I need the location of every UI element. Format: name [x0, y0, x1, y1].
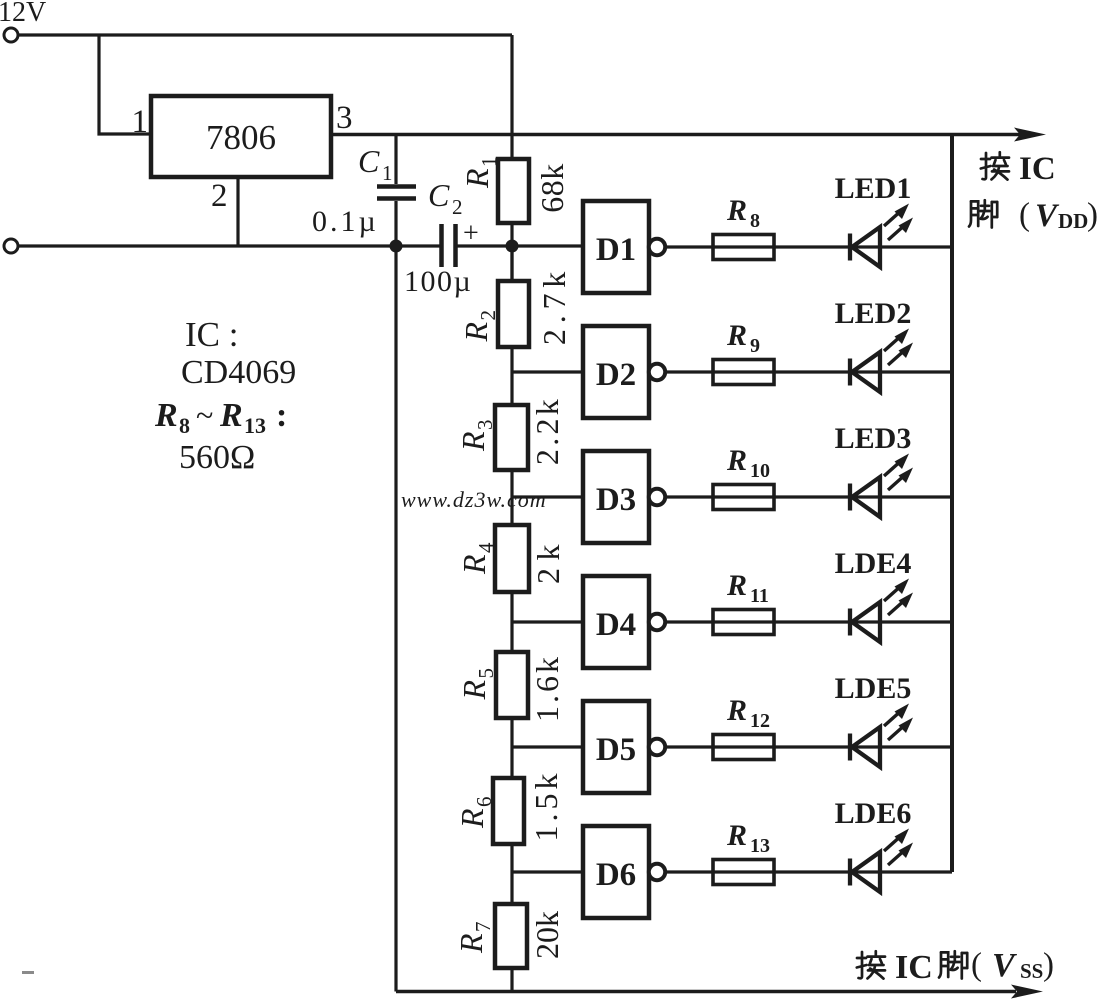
svg-text:13: 13 — [244, 413, 266, 438]
wire R7 to bottom rail — [510, 968, 513, 992]
svg-text:7: 7 — [471, 922, 495, 933]
wire C2 to node B — [457, 244, 583, 247]
resistor R1 — [498, 159, 529, 223]
svg-text:5: 5 — [474, 668, 498, 679]
svg-text:R: R — [726, 444, 747, 477]
resistor R12 — [713, 735, 774, 760]
inverter D2 — [583, 326, 649, 418]
svg-text:): ) — [1087, 197, 1097, 233]
resistor R9 — [713, 360, 774, 385]
capacitor C2 — [442, 224, 456, 267]
svg-text:+: + — [463, 218, 479, 249]
wire bottom VSS rail — [396, 990, 1016, 994]
label jiao (VDD line2) — [969, 200, 997, 227]
svg-text:4: 4 — [474, 542, 498, 553]
arrow VDD — [1014, 128, 1046, 142]
label R6 — [454, 797, 496, 830]
label R7 — [453, 922, 495, 955]
value 68k — [534, 163, 570, 213]
svg-text:560Ω: 560Ω — [179, 439, 255, 476]
wire D6 output row — [665, 870, 952, 873]
capacitor C1 — [377, 187, 416, 199]
svg-text:D1: D1 — [596, 232, 636, 268]
value 1.5k — [528, 770, 564, 842]
svg-text:10: 10 — [750, 460, 770, 482]
label jie IC (VDD line1) — [981, 152, 1009, 179]
svg-text:R: R — [456, 554, 492, 575]
value 2k — [530, 537, 566, 584]
svg-text:100µ: 100µ — [404, 265, 472, 298]
wire chain seg4 — [510, 592, 513, 652]
bubble D4 output — [649, 614, 665, 630]
svg-text:2: 2 — [476, 310, 500, 321]
svg-text:~: ~ — [196, 397, 213, 433]
svg-text:D2: D2 — [596, 357, 636, 393]
svg-text:0.1µ: 0.1µ — [312, 205, 379, 238]
LED LED1 — [850, 204, 913, 268]
label R2 — [458, 310, 500, 343]
svg-text:LED2: LED2 — [835, 297, 912, 330]
svg-text:11: 11 — [750, 585, 769, 607]
svg-text:R: R — [219, 397, 243, 434]
LED LED3 — [850, 454, 913, 518]
wire D5 output row — [665, 745, 952, 748]
svg-text:R: R — [459, 168, 495, 189]
svg-text:R: R — [726, 194, 747, 227]
bubble D3 output — [649, 489, 665, 505]
value 1.6k — [529, 654, 565, 722]
svg-text:R: R — [726, 319, 747, 352]
svg-text:IC: IC — [895, 949, 933, 986]
LED LDE5 — [850, 704, 913, 768]
wire D3 output row — [665, 495, 952, 498]
wire tap to D5 — [512, 745, 583, 748]
resistor R13 — [713, 860, 774, 885]
svg-text:D4: D4 — [596, 607, 636, 643]
wire chain seg2 — [510, 347, 513, 405]
LED LED2 — [850, 329, 913, 393]
svg-text:D6: D6 — [596, 857, 636, 893]
svg-text:3: 3 — [473, 420, 497, 431]
wire tap to D3 — [512, 495, 583, 498]
resistor R11 — [713, 610, 774, 635]
svg-text:2.7k: 2.7k — [536, 266, 572, 345]
resistor R6 — [493, 778, 524, 844]
inverter D1 — [583, 201, 649, 293]
svg-text:LED3: LED3 — [835, 422, 912, 455]
svg-text:3: 3 — [336, 100, 353, 136]
capacitor C1 lead top — [394, 134, 397, 184]
svg-text:1: 1 — [382, 161, 393, 185]
svg-text:LDE6: LDE6 — [835, 797, 912, 830]
capacitor C1 lead bottom — [394, 201, 397, 246]
wire D4 output row — [665, 620, 952, 623]
bubble D6 output — [649, 864, 665, 880]
wire pin3 VDD rail — [331, 133, 1020, 137]
bubble D2 output — [649, 364, 665, 380]
svg-text:7806: 7806 — [206, 118, 276, 157]
svg-text:www.dz3w.com: www.dz3w.com — [401, 487, 547, 512]
svg-text:DD: DD — [1058, 209, 1088, 233]
bubble D1 output — [649, 239, 665, 255]
svg-text:D3: D3 — [596, 482, 636, 518]
svg-text:IC: IC — [1019, 151, 1056, 187]
terminal input + — [4, 28, 18, 42]
svg-text:R: R — [455, 431, 491, 452]
svg-text:68k: 68k — [534, 163, 570, 213]
svg-text:IC :: IC : — [185, 315, 238, 354]
wire tap to D6 — [512, 870, 583, 873]
svg-text:): ) — [1043, 947, 1054, 983]
resistor R2 — [498, 281, 529, 347]
wire branch to pin1 — [99, 35, 151, 134]
svg-text:R: R — [726, 819, 747, 852]
arrow VSS — [1011, 985, 1043, 999]
svg-text:R: R — [454, 808, 490, 829]
svg-text::: : — [276, 397, 287, 434]
svg-text:R: R — [726, 694, 747, 727]
resistor R5 — [496, 652, 528, 718]
svg-text:2: 2 — [452, 195, 463, 219]
wire right bus — [950, 134, 954, 872]
inverter D4 — [583, 576, 649, 668]
svg-text:8: 8 — [750, 210, 760, 232]
svg-text:(: ( — [971, 947, 982, 983]
wire node B to R2 — [510, 246, 513, 281]
resistor R4 — [495, 525, 529, 592]
svg-text:V: V — [1035, 198, 1060, 234]
svg-text:9: 9 — [750, 335, 760, 357]
svg-text:C: C — [428, 177, 450, 213]
wire chain seg1 — [510, 223, 513, 281]
wire D2 output row — [665, 370, 952, 373]
svg-text:12: 12 — [750, 710, 770, 732]
svg-text:6: 6 — [472, 797, 496, 808]
svg-text:1.6k: 1.6k — [529, 654, 565, 722]
label R5 — [456, 668, 498, 701]
wire tap to D4 — [512, 620, 583, 623]
resistor R3 — [495, 405, 528, 470]
svg-text:R: R — [453, 933, 489, 954]
wire tap to D2 — [512, 370, 583, 373]
value 2.7k — [536, 266, 572, 345]
svg-text:2.2k: 2.2k — [529, 396, 565, 465]
svg-text:LED1: LED1 — [835, 172, 912, 205]
svg-text:R: R — [458, 322, 494, 343]
svg-text:(: ( — [1019, 197, 1030, 233]
svg-text:2k: 2k — [530, 537, 566, 584]
svg-text:R: R — [154, 397, 178, 434]
label R4 — [456, 542, 498, 575]
svg-text:LDE5: LDE5 — [835, 672, 912, 705]
resistor R10 — [713, 485, 774, 510]
svg-text:1.5k: 1.5k — [528, 770, 564, 842]
svg-text:C: C — [358, 143, 380, 179]
svg-text:R: R — [726, 569, 747, 602]
svg-text:D5: D5 — [596, 732, 636, 768]
svg-text:V: V — [992, 947, 1017, 984]
resistor R7 — [495, 904, 527, 968]
value 20k — [529, 911, 565, 959]
svg-text:LDE4: LDE4 — [835, 547, 912, 580]
wire chain seg3 — [510, 470, 513, 525]
wire top 12V rail — [18, 33, 512, 36]
wire bottom input rail — [18, 244, 440, 247]
wire chain seg5 — [510, 718, 513, 778]
LED LDE4 — [850, 579, 913, 643]
inverter D5 — [583, 701, 649, 793]
svg-text:CD4069: CD4069 — [181, 354, 296, 391]
stray mark — [22, 971, 34, 974]
junction node B — [506, 240, 519, 253]
wire 12V drop to R1 — [510, 35, 513, 159]
label jie IC jiao (VSS) — [857, 951, 885, 978]
wire chain seg6 — [510, 844, 513, 904]
wire D1 output row — [665, 245, 952, 248]
svg-text:1: 1 — [132, 104, 149, 140]
svg-text:8: 8 — [179, 413, 190, 438]
svg-text:20k: 20k — [529, 911, 565, 959]
terminal input - — [4, 239, 18, 253]
resistor R8 — [713, 235, 774, 260]
svg-text:1: 1 — [477, 157, 501, 168]
regulator 7806 — [151, 96, 331, 177]
value 2.2k — [529, 396, 565, 465]
inverter D6 — [583, 826, 649, 918]
bubble D5 output — [649, 739, 665, 755]
LED LDE6 — [850, 829, 913, 893]
label R3 — [455, 420, 497, 453]
junction node A — [390, 240, 403, 253]
inverter D3 — [583, 451, 649, 543]
svg-text:12V: 12V — [0, 0, 46, 28]
wire left bus down — [394, 246, 397, 992]
svg-text:13: 13 — [750, 835, 770, 857]
svg-text:2: 2 — [211, 178, 228, 214]
label R1 — [459, 157, 501, 190]
svg-text:R: R — [456, 680, 492, 701]
svg-text:SS: SS — [1020, 959, 1043, 983]
wire pin2 down — [236, 177, 239, 246]
